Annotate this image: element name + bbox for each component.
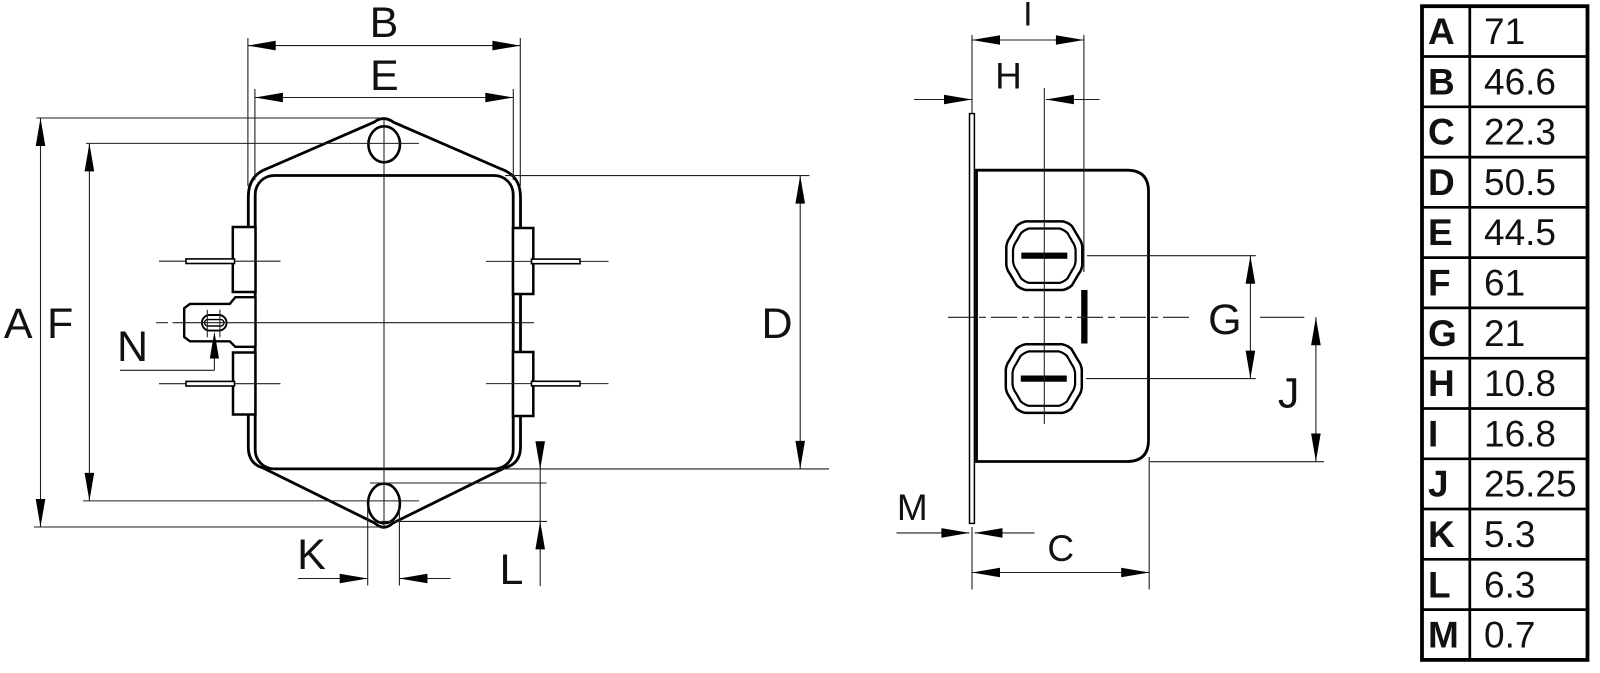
- upper left pin: [186, 259, 235, 264]
- svg-text:B: B: [1428, 61, 1455, 102]
- bottom mounting hole: [368, 484, 400, 524]
- svg-text:C: C: [1428, 112, 1455, 153]
- lower terminal slot: [1021, 376, 1067, 382]
- svg-text:J: J: [1278, 370, 1300, 418]
- svg-text:L: L: [1428, 564, 1451, 605]
- dimension B extension lines: [247, 38, 249, 186]
- dimension J reference bottom: [1150, 461, 1324, 463]
- dimension L reference upper: [370, 482, 547, 484]
- side view body: [977, 170, 1149, 461]
- lower terminal inner: [1013, 351, 1076, 405]
- svg-text:H: H: [995, 55, 1022, 96]
- dimension A line: [40, 118, 42, 527]
- dimension L line: [539, 443, 541, 586]
- svg-text:J: J: [1428, 464, 1449, 505]
- svg-text:D: D: [1428, 162, 1455, 203]
- dimension D reference bottom: [500, 468, 829, 470]
- lower terminal outer: [1006, 344, 1082, 413]
- svg-text:M: M: [897, 487, 928, 528]
- svg-text:M: M: [1428, 615, 1459, 656]
- side view plate top extension: [971, 35, 973, 114]
- dimension K extension lines: [367, 505, 369, 586]
- dimension K line: [298, 578, 368, 580]
- svg-text:44.5: 44.5: [1484, 212, 1556, 253]
- side view flange plate: [970, 114, 975, 524]
- upper terminal outer: [1006, 221, 1082, 290]
- front view body: [255, 176, 513, 469]
- svg-text:21: 21: [1484, 313, 1525, 354]
- side view horizontal center line: [948, 316, 1190, 318]
- dimension C extension lines: [971, 527, 973, 590]
- svg-text:E: E: [370, 52, 399, 100]
- top hole center line / F top reference: [86, 142, 419, 144]
- dimension E line: [255, 97, 513, 99]
- lug tick lines: [206, 310, 208, 338]
- lower right pin: [532, 381, 581, 386]
- fuse bar marker: [1081, 290, 1087, 344]
- dimension G reference upper: [1087, 255, 1256, 257]
- upper right pin: [532, 259, 581, 264]
- svg-text:I: I: [1023, 0, 1032, 34]
- svg-text:50.5: 50.5: [1484, 162, 1556, 203]
- upper right pin block: [513, 228, 533, 294]
- dimension C line: [972, 572, 1149, 574]
- upper terminal slot: [1021, 253, 1067, 259]
- svg-text:71: 71: [1484, 11, 1525, 52]
- svg-text:K: K: [297, 531, 326, 579]
- dimension A reference bottom: [34, 526, 384, 528]
- lower pin center line: [159, 383, 281, 385]
- bottom hole center line / F bottom reference: [83, 500, 419, 502]
- svg-text:B: B: [370, 0, 399, 47]
- upper pin center line: [159, 260, 281, 262]
- lug hole outer: [202, 315, 227, 331]
- horizontal center line: [156, 322, 168, 324]
- svg-text:F: F: [1428, 263, 1451, 304]
- svg-text:46.6: 46.6: [1484, 61, 1556, 102]
- lug hole slot: [205, 320, 225, 326]
- dimension table: [1422, 6, 1588, 660]
- svg-text:N: N: [117, 323, 148, 371]
- dimension D reference top: [505, 175, 810, 177]
- svg-text:10.8: 10.8: [1484, 363, 1556, 404]
- upper terminal inner: [1013, 229, 1076, 283]
- svg-text:E: E: [1428, 212, 1453, 253]
- dimension I line: [972, 39, 1084, 41]
- top mounting hole: [368, 126, 400, 162]
- dimension M line: [897, 532, 970, 534]
- svg-text:A: A: [4, 300, 33, 348]
- lower left pin: [186, 381, 235, 386]
- dimension H line: [914, 99, 972, 101]
- vertical center line: [383, 119, 385, 527]
- svg-text:6.3: 6.3: [1484, 564, 1535, 605]
- erase flange line left at lug: [244, 291, 254, 355]
- dimension J line: [1315, 317, 1317, 461]
- svg-text:F: F: [47, 300, 73, 348]
- svg-text:G: G: [1428, 313, 1457, 354]
- lower right pin block: [513, 352, 533, 416]
- svg-text:0.7: 0.7: [1484, 615, 1535, 656]
- svg-text:16.8: 16.8: [1484, 413, 1556, 454]
- upper left pin block: [233, 227, 256, 292]
- side view I right extension: [1083, 35, 1085, 272]
- svg-text:A: A: [1428, 11, 1455, 52]
- svg-text:D: D: [761, 300, 792, 348]
- svg-text:H: H: [1428, 363, 1455, 404]
- dimension A reference top: [37, 117, 384, 119]
- svg-text:22.3: 22.3: [1484, 112, 1556, 153]
- svg-text:C: C: [1047, 528, 1074, 569]
- svg-text:K: K: [1428, 514, 1455, 555]
- dimension G reference lower: [1086, 378, 1256, 380]
- svg-text:61: 61: [1484, 263, 1525, 304]
- svg-text:L: L: [500, 546, 524, 594]
- dimension G line: [1249, 256, 1251, 379]
- dimension L reference lower: [381, 520, 547, 522]
- front view flange outline: [248, 119, 520, 528]
- side view terminal center line vertical: [1043, 88, 1045, 424]
- svg-text:I: I: [1428, 413, 1438, 454]
- dimension N leader: [120, 369, 214, 371]
- lower left pin block: [233, 353, 255, 415]
- svg-text:5.3: 5.3: [1484, 514, 1535, 555]
- dimension B line: [248, 45, 521, 47]
- dimension F line: [88, 143, 90, 501]
- spade lug terminal N: [184, 297, 255, 347]
- svg-text:25.25: 25.25: [1484, 464, 1577, 505]
- dimension E extension lines: [254, 89, 256, 180]
- svg-text:G: G: [1208, 296, 1241, 344]
- dimension D line: [799, 176, 801, 469]
